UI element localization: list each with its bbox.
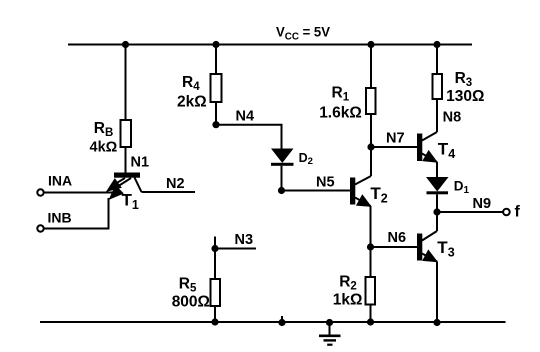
svg-text:T3: T3 [437, 238, 454, 260]
svg-text:R3: R3 [455, 70, 473, 89]
node N9 [433, 208, 440, 215]
transistor T1 emitter B line [116, 178, 131, 188]
wire R1 bottom to N7 [370, 114, 372, 147]
wire R1 top [370, 43, 372, 88]
svg-text:800Ω: 800Ω [172, 293, 210, 310]
wire N3 [215, 248, 256, 250]
svg-text:N6: N6 [388, 230, 407, 246]
wire N4 to D2 anode [216, 125, 282, 149]
svg-text:N5: N5 [316, 175, 335, 191]
transistor T3 emitter arrow [422, 249, 438, 262]
svg-text:R5: R5 [179, 276, 197, 295]
transistor T1 base bar [114, 173, 140, 178]
node VCC-R4 junction [212, 41, 219, 48]
svg-text:N8: N8 [443, 109, 462, 125]
wire D1 cathode to N9 [436, 194, 438, 212]
wire stub at N5 column [281, 316, 283, 322]
svg-text:1.6kΩ: 1.6kΩ [319, 105, 362, 122]
transistor T2 emitter arrow [356, 194, 372, 207]
transistor T4 emitter arrow [422, 150, 438, 163]
diode D1 triangle [426, 177, 449, 192]
node rail ground junction [326, 319, 333, 326]
svg-text:N1: N1 [131, 155, 150, 171]
wire N6 to T3 base [371, 246, 418, 248]
wire RB top [125, 43, 127, 120]
transistor T2 emitter line [355, 198, 371, 207]
wire N7 to T2 collector [370, 147, 372, 176]
node rail R2 junction [367, 318, 374, 325]
wire D2 cathode to N5 [281, 166, 283, 191]
wire N3 to R5 top [214, 249, 216, 280]
svg-text:N7: N7 [386, 131, 405, 147]
svg-text:N2: N2 [166, 176, 185, 192]
wire N7 to T4 base [371, 146, 417, 148]
ground symbol [319, 322, 341, 345]
wire R5 bottom [214, 306, 216, 322]
svg-text:4kΩ: 4kΩ [90, 139, 118, 155]
svg-text:R1: R1 [332, 85, 350, 104]
svg-text:T2: T2 [370, 184, 387, 206]
wire N6 to R2 top [370, 247, 372, 277]
transistor T4 emitter line [422, 154, 437, 163]
node rail T3 junction [433, 319, 440, 326]
node N3 [211, 245, 218, 252]
node rail stub junction [278, 319, 285, 326]
transistor T2 base bar [350, 178, 355, 205]
terminal INB circle [37, 225, 43, 231]
svg-text:RB: RB [94, 120, 114, 139]
node VCC-R1 junction [367, 41, 374, 48]
svg-text:N9: N9 [473, 196, 492, 212]
diode D2 triangle [271, 149, 294, 164]
wire INB [44, 198, 109, 229]
wire N3 stub top [214, 237, 216, 249]
wire T2 emitter to N6 [370, 206, 372, 247]
wire ground rail [40, 321, 506, 323]
node N6 [367, 243, 374, 250]
transistor T3 emitter line [422, 254, 437, 262]
svg-text:2kΩ: 2kΩ [177, 94, 207, 111]
wire RB bottom to T1 base [125, 147, 127, 173]
resistor R4 [211, 74, 222, 102]
resistor R1 [366, 88, 376, 114]
transistor T2 collector line [355, 176, 371, 185]
svg-text:D1: D1 [454, 179, 470, 197]
diode D2 cathode bar [271, 163, 294, 166]
node VCC-RB junction [122, 41, 129, 48]
wire R4 bottom [215, 102, 217, 125]
svg-text:D2: D2 [299, 151, 313, 167]
node N5 [278, 187, 285, 194]
svg-text:f: f [515, 204, 521, 221]
wire VCC rail [68, 44, 472, 46]
wire N9 to output [437, 211, 503, 213]
wire T4 emitter to D1 anode [436, 162, 438, 177]
resistor RB [121, 120, 132, 147]
resistor R2 [366, 277, 376, 305]
svg-text:INB: INB [48, 210, 72, 226]
node rail R5 junction [211, 318, 218, 325]
terminal INA circle [37, 189, 43, 195]
wire R4 top [215, 43, 217, 74]
svg-text:T4: T4 [438, 139, 455, 161]
svg-text:130Ω: 130Ω [446, 88, 484, 105]
svg-text:R4: R4 [182, 74, 200, 93]
svg-text:N4: N4 [236, 109, 255, 125]
svg-text:R2: R2 [339, 274, 357, 293]
node N4 [212, 121, 219, 128]
diode D1 cathode bar [427, 191, 449, 194]
transistor T3 collector line [422, 231, 437, 241]
transistor T3 base bar [417, 234, 422, 261]
transistor T4 base bar [417, 134, 422, 162]
transistor T1 emitter A line [112, 178, 125, 186]
svg-text:INA: INA [48, 172, 72, 188]
svg-text:1kΩ: 1kΩ [333, 292, 363, 309]
wire R3 top [436, 43, 438, 74]
transistor T4 collector line [422, 132, 437, 141]
svg-text:VCC = 5V: VCC = 5V [276, 24, 331, 43]
transistor T1 emitter A arrow [106, 178, 122, 192]
wire T3 emitter to ground rail [436, 262, 438, 323]
wire N9 to T3 collector [436, 212, 438, 231]
resistor R5 [211, 279, 221, 306]
wire R3 bottom to T4 collector [436, 99, 438, 132]
wire R2 bottom [370, 305, 372, 323]
terminal f circle [503, 209, 510, 216]
wire INA [44, 192, 114, 194]
wire N2 [142, 191, 196, 193]
svg-text:T1: T1 [122, 190, 139, 212]
transistor T1 emitter B arrow [109, 185, 124, 200]
transistor T1 collector diagonal to N2 [135, 178, 142, 193]
node VCC-R3 junction [433, 41, 440, 48]
wire N5 to T2 base [282, 190, 351, 192]
svg-text:N3: N3 [235, 232, 254, 248]
node N7 [367, 143, 374, 150]
resistor R3 [433, 74, 443, 99]
